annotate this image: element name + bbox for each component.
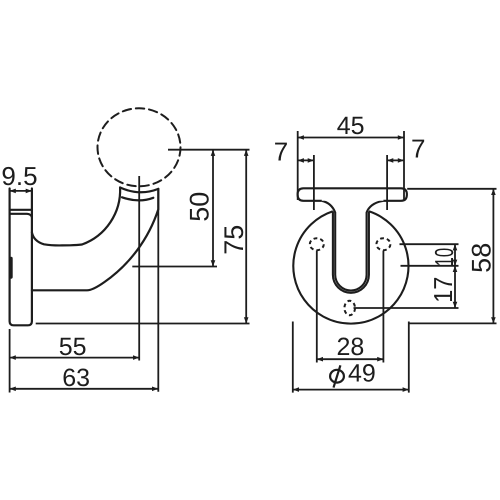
svg-text:45: 45 xyxy=(337,112,365,140)
svg-text:49: 49 xyxy=(348,360,376,388)
svg-text:50: 50 xyxy=(184,192,214,222)
svg-text:55: 55 xyxy=(59,333,87,361)
svg-text:58: 58 xyxy=(467,243,497,273)
svg-text:9.5: 9.5 xyxy=(1,161,37,191)
svg-text:75: 75 xyxy=(219,225,249,255)
svg-text:28: 28 xyxy=(336,333,364,361)
svg-text:7: 7 xyxy=(274,137,288,167)
svg-text:7: 7 xyxy=(411,133,425,163)
svg-text:10: 10 xyxy=(429,248,459,267)
svg-text:63: 63 xyxy=(62,364,90,392)
svg-text:17: 17 xyxy=(428,277,458,303)
